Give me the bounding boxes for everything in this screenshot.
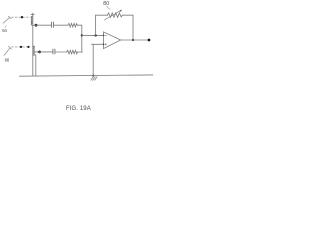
coil tap arrow (36, 51, 38, 53)
arrow variable resistor (104, 10, 122, 20)
resistor R80 variable (107, 13, 122, 18)
svg-text:80: 80 (103, 1, 109, 7)
wire inverting input (82, 34, 104, 36)
op-amp U1 (104, 32, 121, 49)
ground (91, 77, 97, 81)
antenna 66 (4, 46, 11, 55)
wire tank vertical A (32, 13, 34, 76)
svg-text:64: 64 (2, 28, 7, 33)
leader 80 (107, 6, 111, 10)
wire row2 (35, 51, 53, 53)
wire (78, 51, 82, 53)
wire ground bus (20, 75, 153, 76)
resistor R2 (67, 50, 78, 54)
resistor R1 (68, 23, 78, 27)
node dot feedback junction (94, 34, 96, 36)
wire feedback vertical right (132, 15, 134, 40)
inductor L2 (33, 46, 36, 55)
node dot 2 on dashed line 2 (27, 46, 29, 48)
wire (55, 51, 67, 53)
node dot ground junction (92, 75, 94, 77)
wire non-inverting input (92, 43, 104, 45)
wire feedback vertical left (95, 15, 97, 35)
inductor L1 (31, 14, 34, 25)
node dot tank2 tap (38, 51, 41, 54)
wire dashed coupling 1 (12, 16, 31, 18)
svg-text:66: 66 (5, 58, 10, 63)
wire feedback top left (96, 14, 108, 16)
capacitor C2 (53, 49, 55, 54)
node dot on dashed line 1 (21, 16, 23, 18)
node dot tank1 output (35, 24, 38, 27)
wire summing vertical (81, 25, 83, 52)
capacitor C1 (51, 22, 53, 27)
node terminal dot (148, 39, 151, 42)
svg-text:FIG. 19A: FIG. 19A (66, 106, 91, 112)
wire row1 (33, 24, 51, 26)
node dot opamp non-inverting input (103, 43, 105, 45)
node dot opamp inverting input (103, 35, 105, 37)
wire ground vertical (92, 44, 94, 75)
node dot summing tap (81, 34, 83, 36)
wire feedback top right (122, 14, 133, 16)
node dot on dashed line 2 (20, 46, 22, 48)
wire (54, 24, 68, 26)
antenna 64 (3, 16, 11, 28)
wire (77, 24, 81, 26)
wire tank2 ground vertical B (35, 55, 37, 76)
wire row2 riser (81, 51, 83, 53)
wire dashed coupling 2 (12, 46, 31, 48)
wire output (121, 39, 149, 41)
node dot feedback-output (132, 39, 134, 41)
